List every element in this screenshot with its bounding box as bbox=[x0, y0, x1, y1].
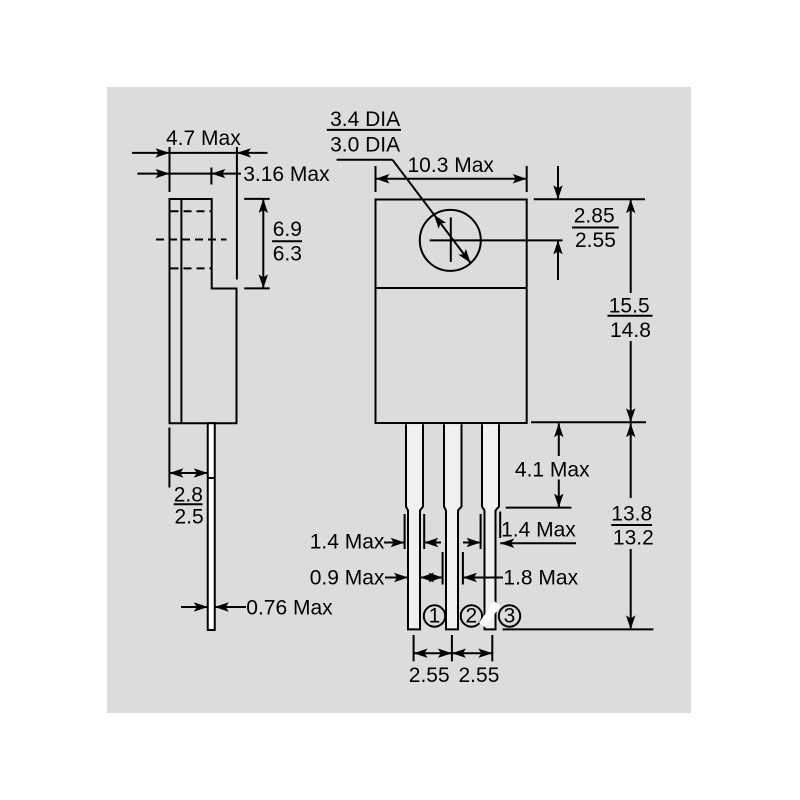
dimension 0.76 Max bbox=[181, 606, 246, 608]
right view: tab separation line bbox=[376, 287, 527, 289]
svg-text:15.5: 15.5 bbox=[609, 295, 650, 318]
svg-text:1.8 Max: 1.8 Max bbox=[503, 567, 578, 590]
lead dimension row A: 1.4 Max left bbox=[384, 512, 576, 549]
svg-text:14.8: 14.8 bbox=[610, 319, 651, 342]
left view: package body outline bbox=[170, 199, 237, 423]
svg-text:1.4 Max: 1.4 Max bbox=[310, 531, 385, 554]
svg-text:2.5: 2.5 bbox=[175, 506, 204, 529]
svg-text:1: 1 bbox=[429, 605, 441, 628]
pin number 1 bbox=[424, 605, 445, 626]
svg-text:3.0 DIA: 3.0 DIA bbox=[330, 133, 400, 156]
svg-text:3.4 DIA: 3.4 DIA bbox=[330, 108, 400, 131]
svg-text:4.1 Max: 4.1 Max bbox=[515, 458, 590, 481]
svg-text:4.7 Max: 4.7 Max bbox=[166, 127, 241, 150]
svg-text:0.9 Max: 0.9 Max bbox=[310, 567, 385, 590]
pin number 2 bbox=[461, 605, 482, 626]
dimension 2.85/2.55 bbox=[534, 166, 645, 280]
svg-text:1.4 Max: 1.4 Max bbox=[501, 518, 576, 541]
right view: hole crosshair vertical bbox=[450, 217, 452, 262]
dimension 2.55 / 2.55 lead pitch bbox=[414, 635, 493, 661]
dimension 15.5/14.8 bbox=[630, 199, 632, 422]
left view: lead (white filled) bbox=[208, 423, 215, 630]
svg-text:2.55: 2.55 bbox=[459, 664, 500, 687]
left view: hole centerline dashed bbox=[156, 239, 227, 241]
svg-text:6.3: 6.3 bbox=[273, 243, 302, 266]
svg-text:6.9: 6.9 bbox=[273, 218, 302, 241]
right view: lead 1 (white filled) bbox=[406, 424, 423, 629]
dimension 2.8/2.5 bbox=[169, 428, 215, 488]
right view: lead 2 (white filled) bbox=[444, 424, 462, 629]
right view: hole crosshair horizontal (extends right as extension line) bbox=[430, 239, 563, 241]
dimension 13.8/13.2 bbox=[630, 423, 632, 629]
svg-text:10.3 Max: 10.3 Max bbox=[408, 154, 495, 177]
right view: mounting hole circle bbox=[420, 210, 481, 271]
dimension 4.7 Max bbox=[132, 147, 268, 280]
left view: dashed hole bottom line bbox=[171, 267, 212, 269]
svg-text:2.55: 2.55 bbox=[575, 229, 616, 252]
dimension 3.16 Max bbox=[137, 168, 241, 185]
dimension 10.3 Max bbox=[376, 166, 527, 192]
lead dimension row B: 0.9 Max / 1.8 Max bbox=[385, 552, 503, 585]
body bottom extension line bbox=[531, 421, 646, 423]
svg-text:13.8: 13.8 bbox=[611, 503, 652, 526]
svg-text:2.55: 2.55 bbox=[409, 664, 450, 687]
right view: lead 3 (white filled) bbox=[482, 424, 499, 629]
white artifact streak over lead 3 bbox=[482, 604, 498, 626]
bottom reference line bbox=[503, 628, 654, 630]
svg-text:0.76 Max: 0.76 Max bbox=[246, 597, 333, 620]
dimension 4.1 Max bbox=[506, 423, 572, 507]
svg-text:2: 2 bbox=[466, 605, 478, 628]
svg-text:3.16 Max: 3.16 Max bbox=[243, 163, 330, 186]
left view: inner vertical line bbox=[180, 199, 182, 423]
left view: dashed hole top line bbox=[171, 210, 212, 212]
right view: package body rectangle bbox=[376, 200, 527, 424]
pin number 3 bbox=[499, 605, 520, 626]
svg-text:2.85: 2.85 bbox=[574, 205, 615, 228]
svg-text:13.2: 13.2 bbox=[613, 527, 654, 550]
drawing background panel bbox=[107, 87, 691, 713]
dimension 6.9/6.3 bbox=[244, 199, 270, 289]
svg-text:3: 3 bbox=[504, 605, 516, 628]
svg-text:2.8: 2.8 bbox=[174, 484, 203, 507]
